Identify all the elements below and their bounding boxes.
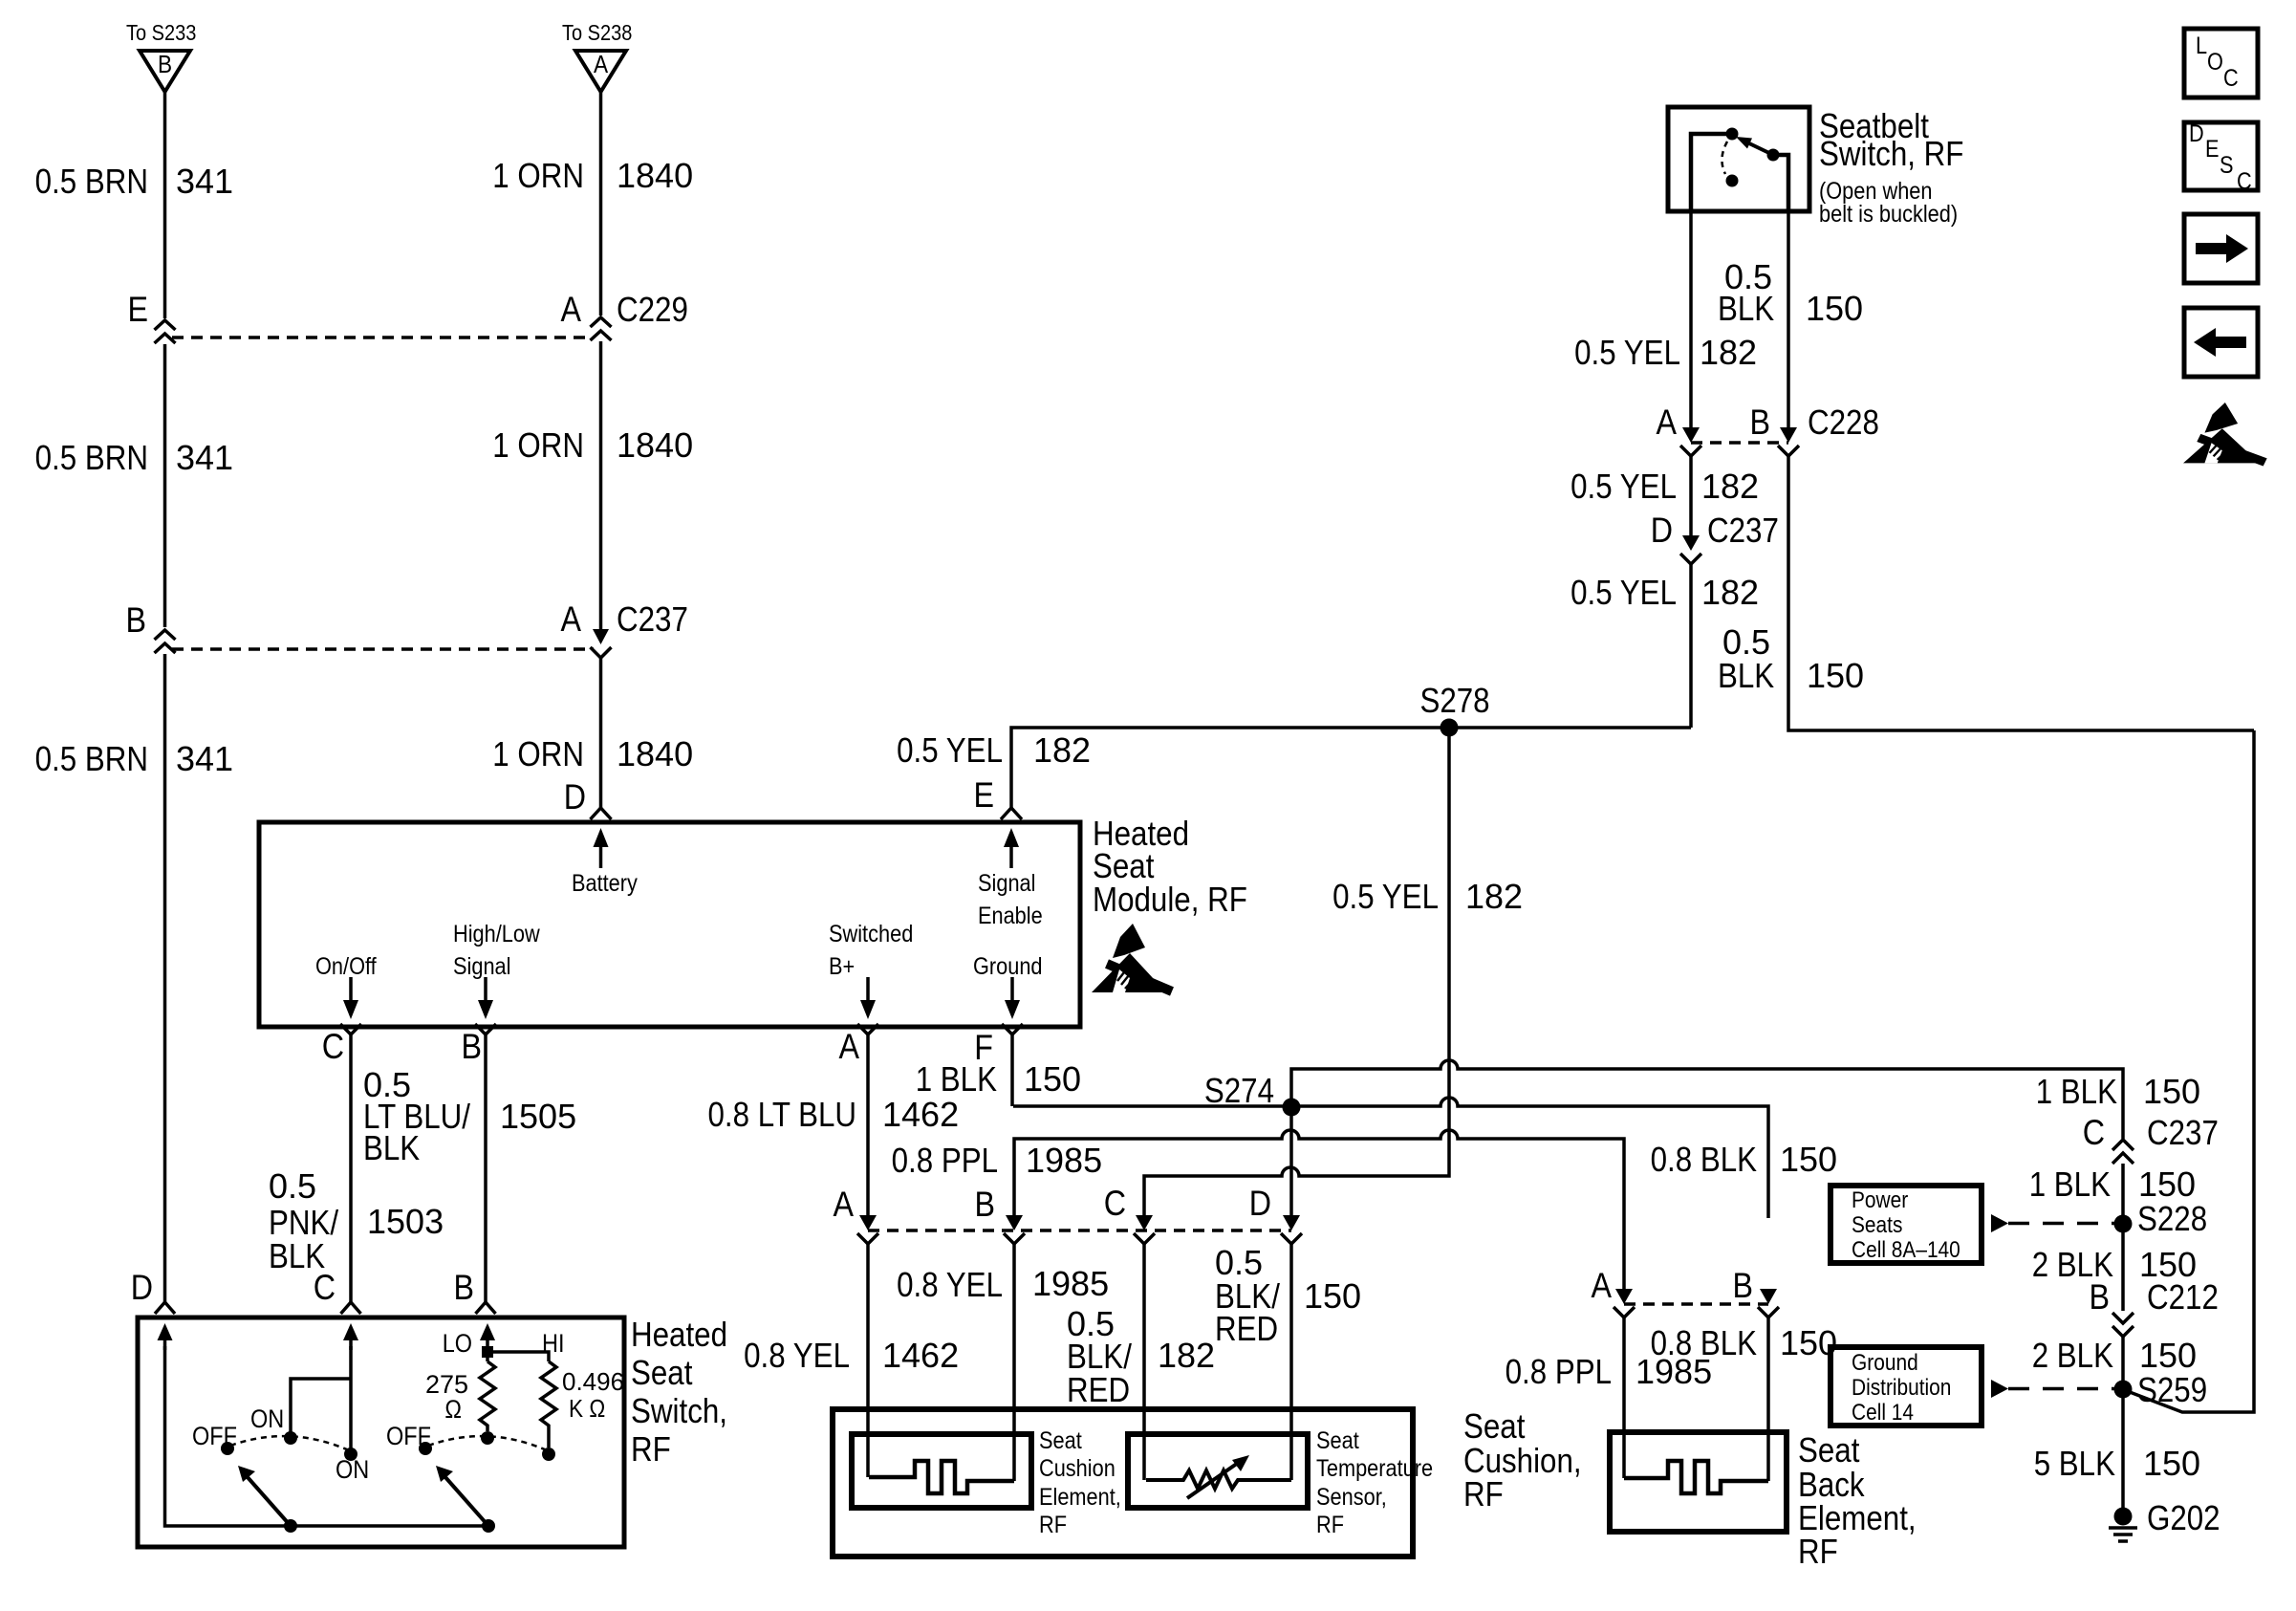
svg-text:RF: RF — [1463, 1474, 1504, 1513]
svg-text:1503: 1503 — [367, 1202, 444, 1241]
svg-text:5 BLK: 5 BLK — [2034, 1444, 2115, 1483]
svg-text:Seat: Seat — [1039, 1427, 1082, 1454]
svg-text:BLK: BLK — [1718, 656, 1774, 695]
svg-text:D: D — [131, 1268, 153, 1307]
svg-text:150: 150 — [1024, 1059, 1081, 1099]
svg-text:150: 150 — [1806, 289, 1863, 328]
svg-text:C: C — [322, 1027, 344, 1066]
svg-text:RED: RED — [1215, 1309, 1278, 1348]
svg-text:RF: RF — [1316, 1512, 1344, 1538]
svg-text:L: L — [2196, 33, 2207, 59]
svg-text:1462: 1462 — [882, 1336, 959, 1375]
svg-text:S259: S259 — [2137, 1370, 2207, 1409]
svg-text:HI: HI — [542, 1329, 565, 1358]
svg-text:Seat: Seat — [1798, 1430, 1859, 1469]
svg-text:B: B — [126, 600, 147, 640]
svg-text:B: B — [454, 1268, 475, 1307]
svg-text:0.5 YEL: 0.5 YEL — [1332, 877, 1439, 916]
svg-text:Heated: Heated — [631, 1315, 727, 1354]
svg-text:C212: C212 — [2147, 1277, 2219, 1317]
svg-text:Signal: Signal — [978, 870, 1036, 897]
svg-text:A: A — [834, 1185, 855, 1224]
svg-text:S274: S274 — [1204, 1071, 1274, 1110]
svg-text:150: 150 — [2143, 1072, 2200, 1111]
svg-text:S: S — [2220, 152, 2234, 179]
svg-text:C: C — [2223, 65, 2239, 92]
svg-text:0.5: 0.5 — [269, 1166, 316, 1206]
svg-text:Power: Power — [1852, 1187, 1908, 1213]
svg-text:High/Low: High/Low — [453, 921, 541, 947]
svg-text:Switched: Switched — [829, 921, 913, 947]
svg-text:A: A — [561, 290, 582, 329]
svg-text:150: 150 — [2143, 1444, 2200, 1483]
svg-text:0.8 YEL: 0.8 YEL — [744, 1336, 850, 1375]
svg-text:Seat: Seat — [1316, 1427, 1359, 1454]
svg-text:1840: 1840 — [617, 425, 693, 465]
svg-text:1 ORN: 1 ORN — [492, 156, 584, 195]
svg-text:182: 182 — [1700, 333, 1757, 372]
svg-text:Sensor,: Sensor, — [1316, 1484, 1387, 1511]
svg-text:0.5 BRN: 0.5 BRN — [35, 162, 148, 201]
svg-text:RF: RF — [1039, 1512, 1067, 1538]
svg-text:C: C — [2237, 168, 2252, 195]
svg-text:182: 182 — [1701, 467, 1759, 506]
svg-text:1 ORN: 1 ORN — [492, 734, 584, 773]
svg-text:Seats: Seats — [1852, 1212, 1902, 1238]
svg-text:341: 341 — [176, 162, 233, 201]
svg-text:To S233: To S233 — [126, 20, 196, 45]
svg-text:RF: RF — [631, 1429, 671, 1469]
svg-text:1985: 1985 — [1635, 1352, 1712, 1391]
svg-text:B: B — [1750, 403, 1771, 442]
svg-text:To S238: To S238 — [562, 20, 632, 45]
svg-text:0.496: 0.496 — [562, 1367, 624, 1396]
svg-text:Switch, RF: Switch, RF — [1819, 134, 1963, 173]
svg-text:belt is buckled): belt is buckled) — [1819, 201, 1958, 228]
svg-text:182: 182 — [1033, 730, 1091, 770]
svg-text:A: A — [561, 599, 582, 639]
svg-text:C: C — [314, 1268, 336, 1307]
svg-text:182: 182 — [1158, 1336, 1215, 1375]
svg-text:150: 150 — [1780, 1140, 1837, 1179]
svg-text:0.5 BRN: 0.5 BRN — [35, 739, 148, 778]
svg-text:0.8 PPL: 0.8 PPL — [1505, 1352, 1612, 1391]
svg-text:Switch,: Switch, — [631, 1391, 727, 1430]
svg-text:0.5 YEL: 0.5 YEL — [1574, 333, 1680, 372]
svg-text:1505: 1505 — [500, 1097, 576, 1136]
svg-text:0.5 YEL: 0.5 YEL — [1570, 467, 1677, 506]
svg-text:341: 341 — [176, 438, 233, 477]
svg-text:182: 182 — [1701, 573, 1759, 612]
svg-text:0.5 YEL: 0.5 YEL — [1570, 573, 1677, 612]
svg-text:Cushion: Cushion — [1039, 1455, 1116, 1482]
svg-text:D: D — [1651, 511, 1673, 550]
svg-text:Signal: Signal — [453, 953, 511, 980]
svg-text:A: A — [839, 1027, 860, 1066]
svg-text:LO: LO — [443, 1329, 472, 1358]
svg-text:B: B — [462, 1027, 483, 1066]
svg-text:S228: S228 — [2137, 1199, 2207, 1238]
svg-text:Battery: Battery — [572, 870, 638, 897]
svg-text:RED: RED — [1067, 1370, 1130, 1409]
svg-text:C: C — [2083, 1113, 2105, 1152]
svg-text:0.8 PPL: 0.8 PPL — [892, 1141, 998, 1180]
svg-text:C229: C229 — [617, 290, 688, 329]
svg-text:A: A — [594, 50, 609, 78]
svg-text:341: 341 — [176, 739, 233, 778]
svg-text:1 BLK: 1 BLK — [2029, 1165, 2111, 1204]
svg-text:150: 150 — [1304, 1276, 1361, 1316]
svg-text:Cell 14: Cell 14 — [1852, 1400, 1914, 1426]
svg-text:150: 150 — [1807, 656, 1864, 695]
svg-text:Temperature: Temperature — [1316, 1455, 1433, 1482]
svg-text:RF: RF — [1798, 1532, 1838, 1571]
svg-text:B: B — [975, 1185, 996, 1224]
svg-text:D: D — [1249, 1184, 1271, 1223]
svg-text:0.8 YEL: 0.8 YEL — [897, 1265, 1003, 1304]
svg-text:Element,: Element, — [1039, 1484, 1121, 1511]
svg-text:Ω: Ω — [444, 1395, 462, 1424]
svg-text:A: A — [1657, 403, 1678, 442]
svg-text:Enable: Enable — [978, 903, 1043, 929]
svg-text:Cell 8A–140: Cell 8A–140 — [1852, 1237, 1960, 1263]
svg-text:BLK: BLK — [1718, 289, 1774, 328]
svg-text:On/Off: On/Off — [315, 953, 377, 980]
svg-text:Ground: Ground — [1852, 1350, 1918, 1376]
svg-text:1 BLK: 1 BLK — [916, 1059, 997, 1099]
svg-text:0.5 BRN: 0.5 BRN — [35, 438, 148, 477]
svg-text:Distribution: Distribution — [1852, 1375, 1951, 1401]
svg-text:1462: 1462 — [882, 1095, 959, 1134]
svg-text:E: E — [974, 775, 995, 815]
svg-text:E: E — [128, 290, 149, 329]
svg-text:150: 150 — [2139, 1336, 2197, 1375]
svg-text:K Ω: K Ω — [569, 1394, 605, 1423]
svg-text:S278: S278 — [1419, 681, 1489, 720]
svg-text:1985: 1985 — [1026, 1141, 1102, 1180]
svg-text:C237: C237 — [1707, 511, 1779, 550]
svg-text:B: B — [158, 50, 172, 78]
svg-text:182: 182 — [1465, 877, 1523, 916]
svg-text:0.8 BLK: 0.8 BLK — [1651, 1140, 1757, 1179]
svg-text:C: C — [1104, 1184, 1126, 1223]
svg-text:C237: C237 — [2147, 1113, 2219, 1152]
svg-text:1 ORN: 1 ORN — [492, 425, 584, 465]
svg-text:ON: ON — [250, 1404, 284, 1433]
svg-text:C228: C228 — [1808, 403, 1879, 442]
svg-text:ON: ON — [336, 1455, 369, 1484]
svg-text:1840: 1840 — [617, 156, 693, 195]
svg-text:B: B — [1733, 1266, 1754, 1305]
svg-text:1 BLK: 1 BLK — [2036, 1072, 2117, 1111]
svg-text:1840: 1840 — [617, 734, 693, 773]
svg-text:BLK: BLK — [363, 1128, 420, 1167]
svg-text:D: D — [564, 777, 586, 816]
svg-text:OFF: OFF — [386, 1422, 431, 1450]
svg-text:150: 150 — [2138, 1165, 2196, 1204]
svg-text:0.5 YEL: 0.5 YEL — [897, 730, 1003, 770]
svg-text:OFF: OFF — [192, 1422, 237, 1450]
svg-text:E: E — [2205, 136, 2220, 163]
svg-text:2 BLK: 2 BLK — [2032, 1336, 2113, 1375]
svg-text:G202: G202 — [2147, 1498, 2220, 1537]
svg-text:B: B — [2090, 1277, 2111, 1317]
svg-text:C237: C237 — [617, 599, 688, 639]
svg-text:Ground: Ground — [973, 953, 1043, 980]
svg-text:1985: 1985 — [1032, 1264, 1109, 1303]
svg-text:Seat: Seat — [631, 1353, 692, 1392]
svg-text:B+: B+ — [829, 953, 855, 980]
svg-text:0.8 LT BLU: 0.8 LT BLU — [708, 1095, 857, 1134]
svg-text:A: A — [1592, 1266, 1613, 1305]
svg-text:Seat: Seat — [1463, 1406, 1525, 1446]
svg-text:D: D — [2189, 120, 2204, 147]
svg-text:Module, RF: Module, RF — [1093, 880, 1247, 919]
svg-text:O: O — [2207, 49, 2223, 76]
